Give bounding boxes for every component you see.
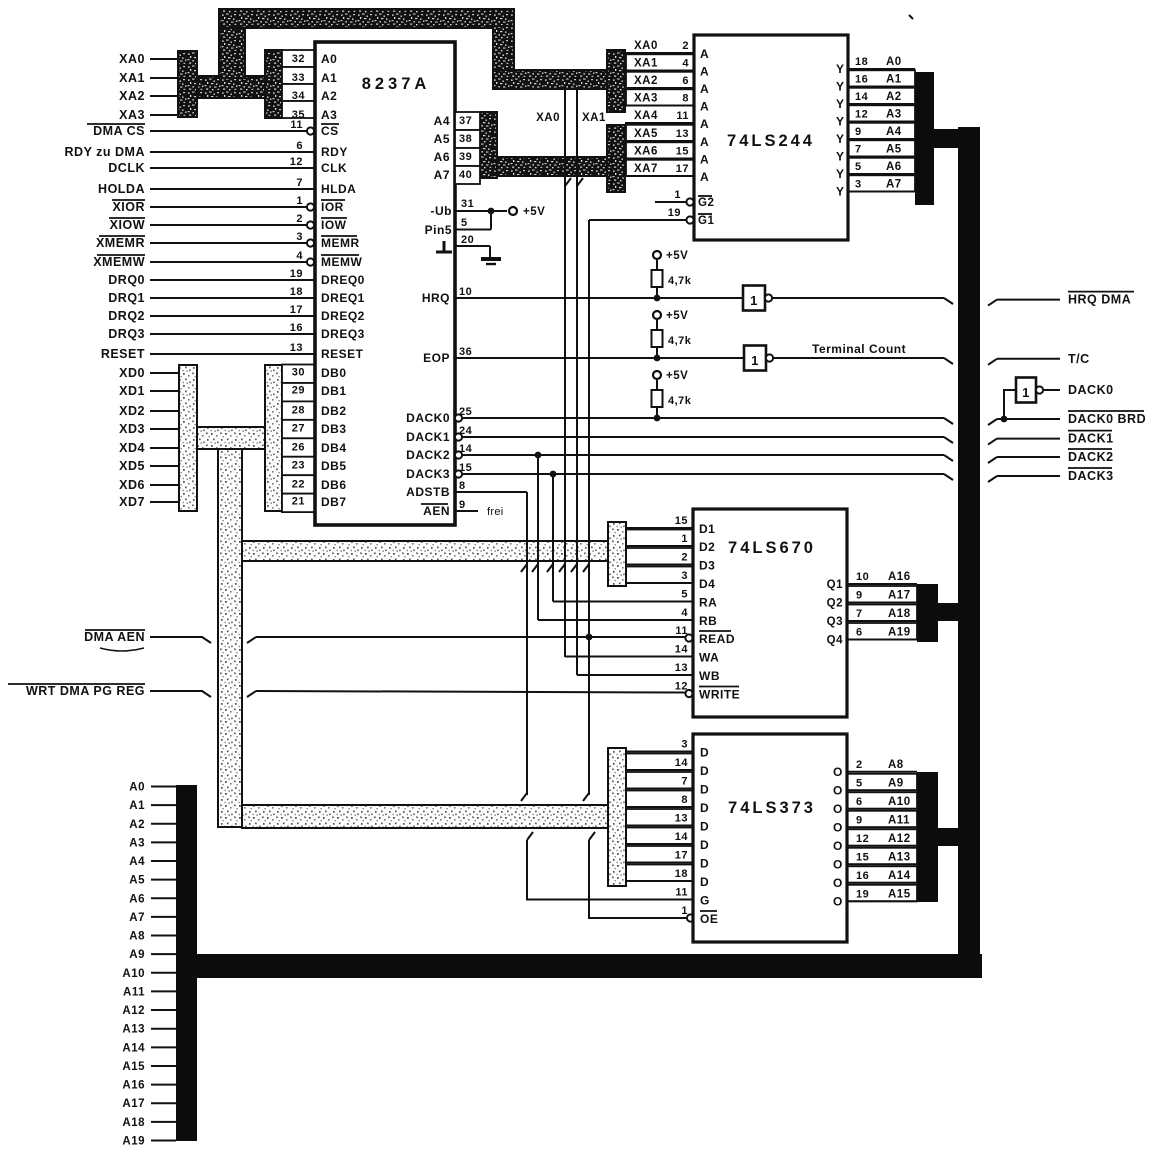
- svg-text:12: 12: [675, 681, 688, 693]
- wire ADSTB resume below band to G: [527, 832, 533, 840]
- bubble G2: [686, 198, 693, 205]
- wire input XA4 pin 11: [625, 122, 694, 124]
- svg-text:A19: A19: [888, 627, 911, 639]
- svg-text:A0: A0: [886, 56, 902, 68]
- svg-text:XD6: XD6: [119, 478, 145, 492]
- wire ADSTB to vertical drop: [455, 491, 527, 493]
- svg-text:XA2: XA2: [634, 75, 658, 87]
- svg-text:12: 12: [855, 109, 868, 121]
- wire A17 tick: [151, 1102, 176, 1104]
- wire A0 tick: [151, 786, 176, 788]
- svg-text:4: 4: [682, 58, 689, 70]
- wire DACK0 BRD right of main bus: [988, 419, 997, 425]
- svg-text:7: 7: [856, 608, 863, 620]
- bubble WRITE pin 12: [685, 690, 692, 697]
- input box XA7: [626, 160, 694, 176]
- svg-text:DRQ0: DRQ0: [108, 273, 145, 287]
- input box XA1: [626, 54, 694, 70]
- svg-text:XD3: XD3: [119, 422, 145, 436]
- svg-text:1: 1: [681, 905, 688, 917]
- svg-text:DREQ1: DREQ1: [321, 291, 365, 305]
- svg-text:23: 23: [292, 460, 305, 472]
- svg-text:XA4: XA4: [634, 110, 658, 122]
- svg-text:Y: Y: [836, 97, 845, 111]
- bus: XD data horizontal band: [197, 427, 265, 449]
- bus: XA0-XA3 band to 74LS244: [493, 70, 609, 89]
- svg-text:DACK2: DACK2: [406, 448, 450, 462]
- svg-text:HLDA: HLDA: [321, 182, 356, 196]
- svg-text:A9: A9: [888, 777, 904, 789]
- pin cell 28 (DB2): [282, 401, 315, 419]
- svg-text:39: 39: [459, 151, 472, 163]
- svg-text:A12: A12: [888, 833, 911, 845]
- svg-text:18: 18: [290, 286, 303, 298]
- bubble OE pin 1: [687, 914, 694, 921]
- svg-text:13: 13: [675, 662, 688, 674]
- input box D3: [626, 548, 693, 565]
- svg-text:DACK1: DACK1: [406, 430, 450, 444]
- wire A18 tick: [151, 1121, 176, 1123]
- svg-text:13: 13: [676, 128, 689, 140]
- pin cell 35 (A3): [282, 101, 315, 118]
- svg-text:A6: A6: [129, 893, 145, 905]
- output box A15: [847, 885, 917, 902]
- svg-text:D: D: [700, 764, 709, 778]
- resistor R3 4,7k: [656, 379, 658, 390]
- svg-text:A: A: [700, 170, 709, 184]
- output box A13: [847, 848, 917, 865]
- svg-text:Y: Y: [836, 185, 845, 199]
- svg-text:Pin5: Pin5: [425, 223, 452, 237]
- svg-text:DREQ3: DREQ3: [321, 327, 365, 341]
- wire input XA2 pin 6: [625, 87, 694, 89]
- wire A9 tick: [151, 953, 176, 955]
- svg-text:Q4: Q4: [827, 635, 843, 647]
- svg-text:A15: A15: [888, 888, 911, 900]
- wire XD4 input: [150, 447, 179, 449]
- wire enable resume below band to OE: [589, 832, 595, 840]
- svg-text:A17: A17: [122, 1098, 145, 1110]
- svg-text:WRT DMA PG REG: WRT DMA PG REG: [26, 684, 145, 698]
- svg-text:D1: D1: [699, 522, 715, 536]
- svg-text:DREQ0: DREQ0: [321, 273, 365, 287]
- wire A13 tick: [151, 1028, 176, 1030]
- wire RESET to 8237A pin 13: [150, 353, 315, 355]
- output box A6: [848, 158, 915, 174]
- wire XD3 input: [150, 428, 179, 430]
- svg-text:XD4: XD4: [119, 441, 145, 455]
- svg-text:DREQ2: DREQ2: [321, 309, 365, 323]
- svg-text:36: 36: [459, 346, 472, 358]
- wire A11 tick: [151, 990, 176, 992]
- svg-text:29: 29: [292, 385, 305, 397]
- svg-text:A5: A5: [886, 144, 902, 156]
- bubble DACK2: [455, 451, 462, 458]
- svg-text:A2: A2: [886, 91, 902, 103]
- svg-text:1: 1: [674, 189, 681, 201]
- svg-text:9: 9: [855, 126, 862, 138]
- wire DACK0 buffer output: [1043, 389, 1060, 391]
- svg-text:DRQ2: DRQ2: [108, 309, 145, 323]
- wire DRQ2 to 8237A pin 17: [150, 315, 315, 317]
- svg-text:XA1: XA1: [634, 58, 658, 70]
- svg-text:A: A: [700, 65, 709, 79]
- svg-text:10: 10: [459, 286, 472, 298]
- svg-text:2: 2: [856, 759, 863, 771]
- output box A7: [848, 175, 915, 191]
- wire XIOR to 8237A pin 1: [150, 206, 307, 208]
- wire A10 tick: [151, 972, 176, 974]
- svg-text:O: O: [833, 820, 843, 834]
- svg-text:16: 16: [290, 322, 303, 334]
- svg-text:A0: A0: [321, 52, 337, 66]
- wire output O pin 5 to bus (A9): [847, 789, 917, 791]
- input box D2: [626, 772, 693, 789]
- input box D7: [626, 865, 693, 882]
- wire input D pin 7: [626, 788, 693, 790]
- wire input D pin 18: [626, 880, 693, 882]
- wire T/C right of main bus: [988, 359, 997, 365]
- wire ADSTB vertical run: [526, 492, 528, 795]
- input box D4: [626, 809, 693, 826]
- svg-text:Q2: Q2: [827, 598, 843, 610]
- svg-text:frei: frei: [487, 506, 503, 518]
- wire DACK1 to main bus: [462, 436, 944, 438]
- bus: A16-A19 solid bar at 74LS670 outputs: [917, 584, 938, 642]
- svg-text:5: 5: [461, 217, 468, 229]
- svg-text:A14: A14: [122, 1042, 145, 1054]
- IC U3 74LS670 body: [693, 509, 847, 717]
- input box D6: [626, 846, 693, 863]
- stray mark top right: [909, 15, 913, 19]
- svg-text:6: 6: [856, 796, 863, 808]
- wire DMA AEN to bus crossing: [150, 636, 203, 638]
- input box XA5: [626, 125, 694, 141]
- IC U2 74LS244 body: [694, 35, 848, 240]
- svg-text:27: 27: [292, 423, 305, 435]
- svg-text:5: 5: [681, 589, 688, 601]
- +5V supply for DACK0 pull-up: [653, 371, 661, 379]
- wire WA from vertical tap x=565: [565, 656, 693, 658]
- svg-text:+5V: +5V: [666, 310, 688, 322]
- wire DRQ0 to 8237A pin 19: [150, 279, 315, 281]
- svg-text:15: 15: [675, 515, 688, 527]
- svg-text:XD2: XD2: [119, 404, 145, 418]
- svg-text:DB5: DB5: [321, 459, 347, 473]
- svg-text:A4: A4: [434, 114, 450, 128]
- svg-text:9: 9: [856, 590, 863, 602]
- svg-text:74LS244: 74LS244: [727, 132, 815, 150]
- pin cell 40 (A7): [455, 166, 480, 184]
- svg-text:7: 7: [681, 776, 688, 788]
- svg-text:XD0: XD0: [119, 366, 145, 380]
- svg-text:D2: D2: [699, 540, 715, 554]
- svg-text:DACK1: DACK1: [1068, 432, 1114, 446]
- wire input XA7 pin 17: [625, 175, 694, 177]
- svg-text:XA3: XA3: [634, 93, 658, 105]
- svg-text:D: D: [700, 820, 709, 834]
- svg-text:Y: Y: [836, 150, 845, 164]
- junction DACK3 tap: [550, 471, 557, 478]
- svg-text:40: 40: [459, 169, 472, 181]
- svg-text:A10: A10: [888, 796, 911, 808]
- bus: stub 74LS373 to main address bus: [938, 828, 960, 846]
- resistor R1 4,7k: [656, 259, 658, 270]
- svg-text:CS: CS: [321, 124, 339, 138]
- wire Terminal Count to main bus: [773, 357, 944, 359]
- svg-text:3: 3: [855, 179, 862, 191]
- svg-text:D: D: [700, 801, 709, 815]
- svg-text:RDY: RDY: [321, 145, 348, 159]
- svg-text:XA0: XA0: [119, 52, 145, 66]
- svg-text:21: 21: [292, 496, 305, 508]
- output box A9: [847, 774, 917, 791]
- svg-text:O: O: [833, 765, 843, 779]
- wire DACK3 right of main bus: [988, 476, 997, 482]
- wire input D pin 14: [626, 769, 693, 771]
- junction pin31/pin5: [488, 208, 495, 215]
- svg-text:14: 14: [675, 757, 689, 769]
- pin cell 21 (DB7): [282, 494, 315, 512]
- svg-text:74LS670: 74LS670: [728, 539, 816, 557]
- svg-text:DACK0: DACK0: [1068, 383, 1114, 397]
- wire DACK2 tap to RB: [537, 455, 539, 620]
- output box A1: [848, 70, 915, 86]
- svg-text:A13: A13: [888, 851, 911, 863]
- svg-text:1: 1: [751, 353, 759, 368]
- bus: stub 74LS244 to main address bus: [934, 129, 960, 148]
- output box A2: [848, 88, 915, 104]
- bus: data bar at 74LS373 D inputs: [608, 748, 626, 886]
- svg-text:DRQ1: DRQ1: [108, 291, 145, 305]
- svg-text:A11: A11: [123, 986, 145, 998]
- junction EOP/pull-up: [654, 355, 661, 362]
- svg-text:A9: A9: [129, 949, 145, 961]
- svg-text:A6: A6: [434, 150, 450, 164]
- junction HRQ/pull-up: [654, 295, 661, 302]
- svg-text:D: D: [700, 875, 709, 889]
- svg-text:DACK0 BRD: DACK0 BRD: [1068, 412, 1146, 426]
- wire EOP from 8237A to buffer: [455, 357, 744, 359]
- svg-text:WRITE: WRITE: [699, 688, 740, 702]
- pin G2 (1) wire: [655, 201, 686, 203]
- wire DACK2 right of main bus: [988, 457, 997, 463]
- pin cell 30 (DB0): [282, 365, 315, 383]
- svg-text:D: D: [700, 857, 709, 871]
- bubble pin 2: [307, 221, 314, 228]
- svg-text:DACK2: DACK2: [1068, 450, 1114, 464]
- wire output Y pin 12 to bus (A3): [848, 121, 915, 123]
- svg-text:DCLK: DCLK: [108, 161, 145, 175]
- svg-text:8: 8: [682, 93, 689, 105]
- svg-text:A7: A7: [129, 912, 145, 924]
- buffer gate 1 (HRQ): [743, 286, 765, 311]
- wire input D pin 17: [626, 862, 693, 864]
- svg-text:HRQ DMA: HRQ DMA: [1068, 293, 1131, 307]
- svg-text:XIOR: XIOR: [112, 200, 145, 214]
- svg-text:18: 18: [855, 56, 868, 68]
- output box A18: [847, 605, 917, 622]
- wire HRQ buffer output to main bus: [772, 297, 944, 299]
- wire XD5 input: [150, 465, 179, 467]
- wire output O pin 2 to bus (A8): [847, 771, 917, 773]
- bubble pin 4: [307, 258, 314, 265]
- wire input D pin 8: [626, 806, 693, 808]
- svg-text:20: 20: [461, 234, 474, 246]
- bubble DACK1: [455, 433, 462, 440]
- svg-text:30: 30: [292, 367, 305, 379]
- wire DMA CS to 8237A pin 11: [150, 130, 307, 132]
- svg-text:A18: A18: [122, 1117, 145, 1129]
- +5V supply for HRQ pull-up: [653, 251, 661, 259]
- wire output O pin 16 to bus (A14): [847, 882, 917, 884]
- bubble DACK0: [455, 414, 462, 421]
- svg-text:A: A: [700, 82, 709, 96]
- svg-text:XD1: XD1: [119, 384, 145, 398]
- svg-text:16: 16: [856, 870, 869, 882]
- svg-text:5: 5: [855, 161, 862, 173]
- wire A12 tick: [151, 1009, 176, 1011]
- svg-text:7: 7: [855, 144, 862, 156]
- bus: XA0-XA3 step-down segment: [493, 26, 514, 72]
- svg-text:A0: A0: [129, 782, 145, 794]
- svg-text:-Ub: -Ub: [431, 204, 453, 218]
- svg-text:10: 10: [856, 571, 869, 583]
- svg-text:A5: A5: [434, 132, 450, 146]
- svg-text:1: 1: [681, 533, 688, 545]
- wire output O pin 12 to bus (A12): [847, 845, 917, 847]
- svg-text:16: 16: [855, 74, 868, 86]
- svg-text:WB: WB: [699, 669, 720, 683]
- svg-text:15: 15: [676, 146, 689, 158]
- svg-text:14: 14: [675, 644, 689, 656]
- svg-text:XA0: XA0: [634, 40, 658, 52]
- wire A7 tick: [151, 916, 176, 918]
- wire XA2 input: [150, 95, 179, 97]
- output box A19: [847, 623, 917, 640]
- wire XD2 input: [150, 410, 179, 412]
- svg-text:Y: Y: [836, 167, 845, 181]
- pin cell 22 (DB6): [282, 475, 315, 493]
- svg-text:35: 35: [292, 109, 305, 121]
- svg-text:DB1: DB1: [321, 384, 347, 398]
- output box A17: [847, 586, 917, 603]
- svg-text:19: 19: [668, 207, 681, 219]
- pin cell 26 (DB4): [282, 438, 315, 456]
- wire joining pins 31 and 5: [490, 211, 492, 230]
- svg-text:13: 13: [290, 342, 303, 354]
- wire output O pin 9 to bus (A11): [847, 826, 917, 828]
- svg-text:T/C: T/C: [1068, 352, 1090, 366]
- bus: A0-A19 left vertical bus bar: [176, 785, 197, 1141]
- svg-text:+5V: +5V: [666, 370, 688, 382]
- bus: XA0-XA3 top horizontal band: [219, 9, 514, 28]
- pin cell 27 (DB3): [282, 420, 315, 438]
- bus: XA0-XA3 bar at 8237A pin cells: [265, 50, 282, 118]
- svg-text:A1: A1: [886, 74, 902, 86]
- svg-text:13: 13: [675, 813, 688, 825]
- svg-text:A1: A1: [129, 800, 145, 812]
- svg-text:11: 11: [675, 625, 688, 637]
- wire RB from vertical tap x=538: [538, 619, 693, 621]
- wire DACK2 to main bus: [462, 454, 944, 456]
- pin cell 38 (A5): [455, 130, 480, 148]
- svg-text:DB7: DB7: [321, 495, 347, 509]
- svg-text:A16: A16: [122, 1080, 145, 1092]
- wire output Q3 pin 7 to bus (A18): [847, 620, 917, 622]
- wire DACK1 right of main bus: [988, 439, 997, 445]
- svg-text:XA6: XA6: [634, 146, 658, 158]
- svg-text:D3: D3: [699, 559, 715, 573]
- svg-text:DACK3: DACK3: [406, 467, 450, 481]
- svg-text:IOW: IOW: [321, 218, 347, 232]
- svg-text:DB6: DB6: [321, 478, 347, 492]
- svg-text:A2: A2: [321, 89, 337, 103]
- svg-text:11: 11: [675, 887, 688, 899]
- svg-text:9: 9: [459, 499, 466, 511]
- svg-text:O: O: [833, 783, 843, 797]
- wire HRQ DMA right of main bus: [988, 300, 997, 306]
- svg-text:Q3: Q3: [827, 616, 843, 628]
- svg-text:DACK0: DACK0: [406, 411, 450, 425]
- output box A12: [847, 829, 917, 846]
- svg-text:D: D: [700, 746, 709, 760]
- svg-text:A6: A6: [886, 161, 902, 173]
- svg-text:DMA CS: DMA CS: [93, 124, 145, 138]
- wire HRQ from 8237A to buffer: [455, 297, 743, 299]
- wire XA1 input: [150, 77, 179, 79]
- svg-text:15: 15: [856, 851, 869, 863]
- svg-text:XD5: XD5: [119, 459, 145, 473]
- wire WRT DMA PG REG to bus crossing: [150, 690, 203, 692]
- svg-text:A11: A11: [888, 814, 910, 826]
- svg-text:17: 17: [290, 304, 303, 316]
- output box A3: [848, 105, 915, 121]
- svg-text:A18: A18: [888, 608, 911, 620]
- svg-text:4: 4: [296, 250, 303, 262]
- svg-text:RDY zu DMA: RDY zu DMA: [65, 145, 145, 159]
- svg-text:RESET: RESET: [101, 347, 145, 361]
- wire A16 tick: [151, 1084, 176, 1086]
- wire DACK3 to main bus: [462, 473, 944, 475]
- pin cell 39 (A6): [455, 148, 480, 166]
- svg-text:A4: A4: [129, 856, 145, 868]
- svg-text:4,7k: 4,7k: [668, 275, 692, 287]
- wire A8 tick: [151, 935, 176, 937]
- svg-text:74LS373: 74LS373: [728, 799, 816, 817]
- svg-text:A19: A19: [122, 1135, 145, 1147]
- IC U4 74LS373 body: [693, 734, 847, 942]
- pin cell 29 (DB1): [282, 383, 315, 401]
- bubble G1: [686, 216, 693, 223]
- svg-text:D4: D4: [699, 577, 715, 591]
- wire RDY zu DMA to 8237A pin 6: [150, 151, 315, 153]
- pin cell 33 (A1): [282, 67, 315, 84]
- svg-text:28: 28: [292, 405, 305, 417]
- svg-text:+5V: +5V: [666, 250, 688, 262]
- svg-text:A7: A7: [886, 179, 902, 191]
- wire A3 tick: [151, 841, 176, 843]
- svg-text:5: 5: [856, 777, 863, 789]
- svg-text:A: A: [700, 135, 709, 149]
- wire input D pin 3: [626, 751, 693, 753]
- svg-text:17: 17: [676, 163, 689, 175]
- wire A15 tick: [151, 1065, 176, 1067]
- svg-text:XIOW: XIOW: [110, 218, 145, 232]
- input box XA6: [626, 142, 694, 158]
- wire XA3 input: [150, 114, 179, 116]
- wire input XA5 pin 13: [625, 140, 694, 142]
